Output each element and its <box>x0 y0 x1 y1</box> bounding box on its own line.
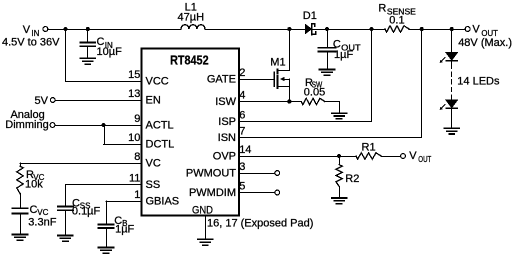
svg-text:1µF: 1µF <box>115 223 134 235</box>
svg-text:2: 2 <box>239 67 245 79</box>
svg-text:0.05: 0.05 <box>304 86 325 98</box>
svg-text:4: 4 <box>239 90 245 102</box>
svg-text:48V (Max.): 48V (Max.) <box>458 37 512 49</box>
svg-text:M1: M1 <box>270 57 285 69</box>
svg-text:EN: EN <box>146 95 161 107</box>
svg-text:D1: D1 <box>303 10 317 22</box>
svg-text:RT8452: RT8452 <box>170 53 209 68</box>
svg-text:Dimming: Dimming <box>5 119 48 131</box>
svg-text:10µF: 10µF <box>97 46 123 58</box>
svg-text:VCC: VCC <box>146 76 169 88</box>
svg-text:10k: 10k <box>25 179 43 191</box>
svg-text:10: 10 <box>128 132 140 144</box>
svg-text:R2: R2 <box>345 173 359 185</box>
svg-text:OVP: OVP <box>213 151 236 163</box>
svg-text:3.3nF: 3.3nF <box>28 216 56 228</box>
svg-text:0.1µF: 0.1µF <box>72 205 101 217</box>
svg-text:5V: 5V <box>35 95 49 107</box>
svg-text:R1: R1 <box>362 142 376 154</box>
svg-text:8: 8 <box>134 151 140 163</box>
svg-text:GND: GND <box>192 205 213 217</box>
svg-text:47µH: 47µH <box>178 12 205 24</box>
svg-text:0.1: 0.1 <box>389 15 404 27</box>
svg-text:V: V <box>23 24 31 36</box>
svg-text:9: 9 <box>134 113 140 125</box>
svg-text:GBIAS: GBIAS <box>146 196 180 208</box>
svg-text:SS: SS <box>146 179 161 191</box>
svg-text:13: 13 <box>128 88 140 100</box>
svg-text:ISW: ISW <box>215 96 236 108</box>
svg-text:PWMDIM: PWMDIM <box>189 187 236 199</box>
svg-text:GATE: GATE <box>207 74 236 86</box>
svg-text:4.5V to 36V: 4.5V to 36V <box>2 37 60 49</box>
svg-text:VC: VC <box>146 158 161 170</box>
svg-text:ISP: ISP <box>218 116 236 128</box>
svg-text:1µF: 1µF <box>334 49 353 61</box>
svg-text:5: 5 <box>239 181 245 193</box>
svg-text:DCTL: DCTL <box>146 139 175 151</box>
svg-text:V: V <box>472 24 480 36</box>
svg-text:6: 6 <box>239 110 245 122</box>
svg-text:14 LEDs: 14 LEDs <box>457 75 500 87</box>
svg-text:OUT: OUT <box>418 155 431 164</box>
svg-text:R: R <box>378 2 386 14</box>
svg-text:3: 3 <box>239 161 245 173</box>
svg-text:16, 17 (Exposed Pad): 16, 17 (Exposed Pad) <box>207 218 313 230</box>
svg-text:C: C <box>30 204 38 216</box>
svg-text:1: 1 <box>134 189 140 201</box>
svg-text:11: 11 <box>129 173 140 185</box>
svg-text:ISN: ISN <box>218 132 236 144</box>
svg-text:14: 14 <box>239 144 251 156</box>
svg-text:PWMOUT: PWMOUT <box>186 168 236 180</box>
svg-text:V: V <box>409 150 417 162</box>
svg-text:15: 15 <box>128 69 140 81</box>
svg-text:ACTL: ACTL <box>146 120 174 132</box>
svg-text:7: 7 <box>239 126 245 138</box>
